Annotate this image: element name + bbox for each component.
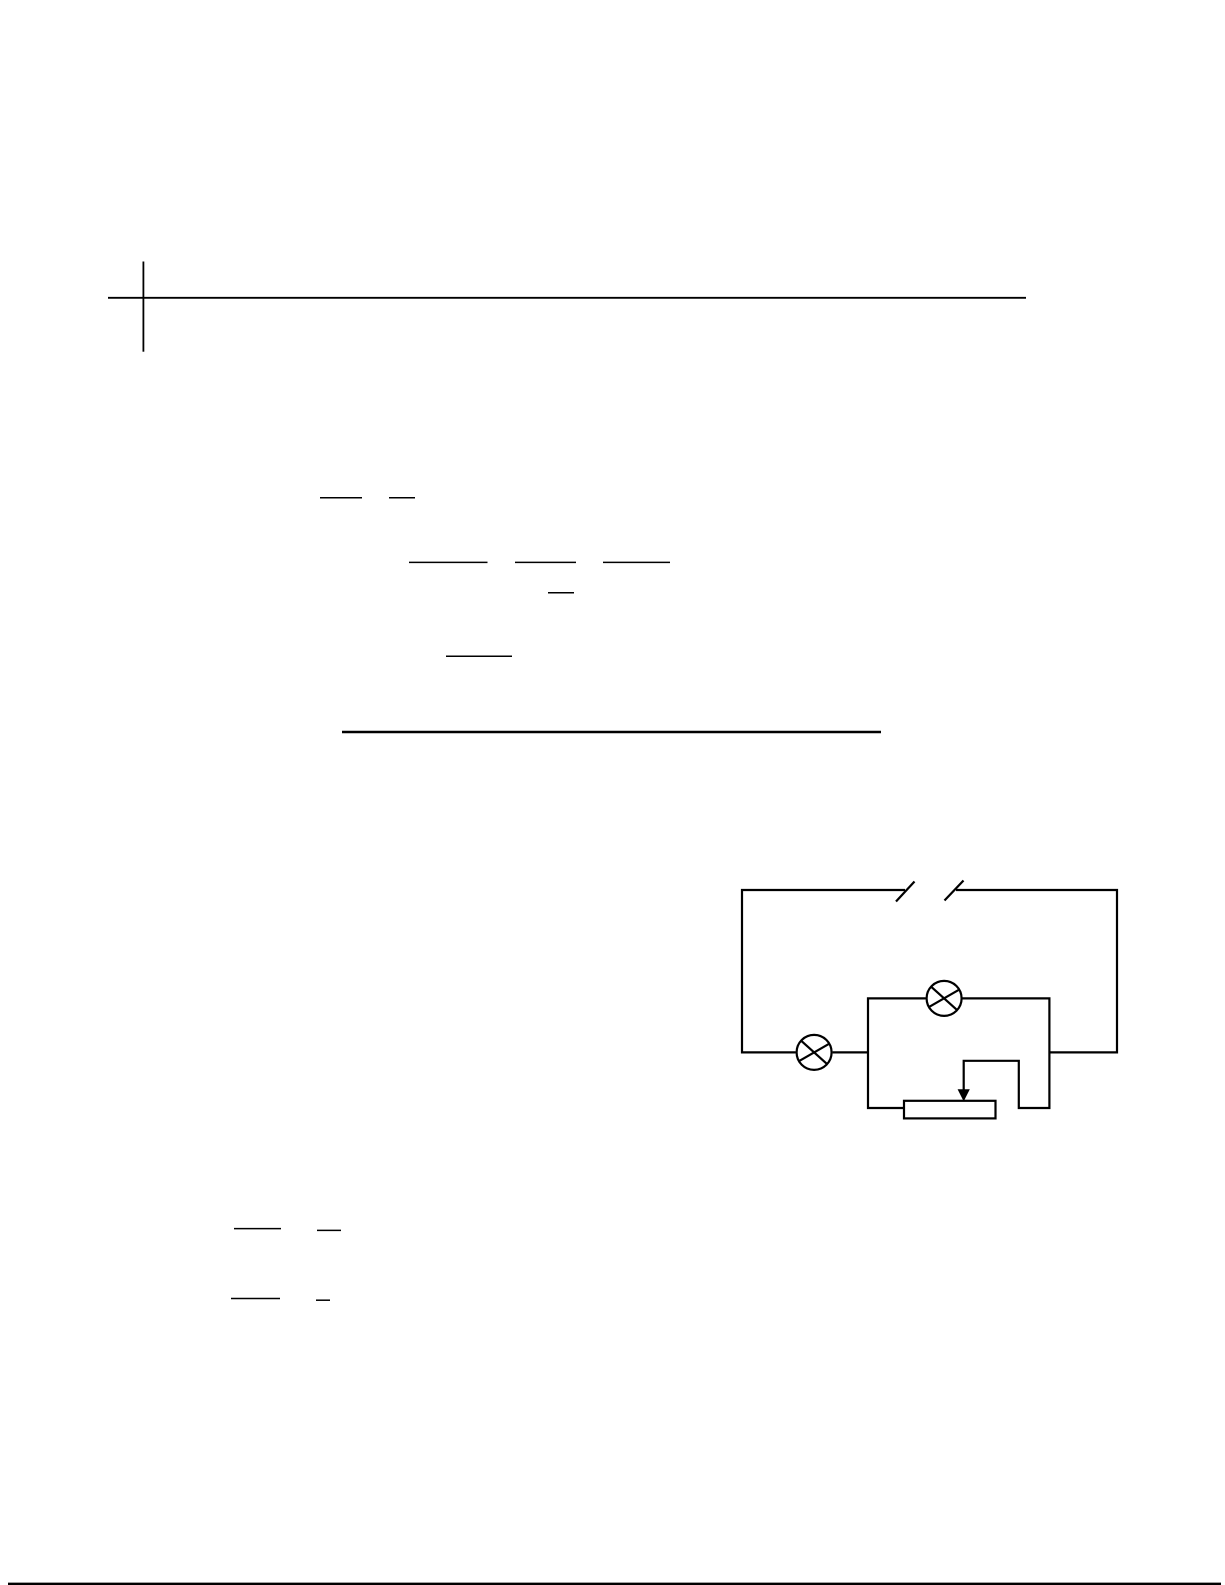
lower fraction bar 4 <box>316 1299 330 1301</box>
lamp L2 cross <box>929 987 959 1010</box>
fraction bar 7 <box>446 655 512 657</box>
crop mark vertical line <box>142 262 144 352</box>
wire: lamp L1 to parallel section node <box>833 1051 868 1053</box>
heading rule horizontal line <box>108 297 1026 299</box>
wire: outer loop right (top-right down to bottom-right) <box>956 890 1117 1052</box>
fraction bar 2 <box>389 497 415 499</box>
lamp L1 cross <box>799 1041 829 1064</box>
fraction bar 6 <box>548 592 574 594</box>
switch S1 blade right <box>945 881 964 901</box>
fraction bar 3 <box>409 561 488 563</box>
wire: outer loop left (top-left to bottom-left to lamp L1) <box>742 890 905 1052</box>
wire: parallel branch top-right and right side down to wiper lead <box>962 998 1049 1108</box>
page bottom rule <box>8 1583 1221 1585</box>
lower fraction bar 3 <box>231 1298 280 1300</box>
fraction bar 1 <box>320 497 362 499</box>
fraction bar 4 <box>515 561 576 563</box>
switch S1 blade left <box>896 882 915 902</box>
lower fraction bar 2 <box>317 1229 341 1231</box>
lamp L1 circle <box>797 1035 832 1070</box>
rheostat R1 body <box>904 1101 996 1119</box>
answer underline <box>342 731 881 733</box>
fraction bar 5 <box>603 561 670 563</box>
wire: parallel branch left side and top to lamp L2 <box>868 998 926 1108</box>
lower fraction bar 1 <box>234 1228 281 1230</box>
wiper arrowhead <box>958 1090 969 1101</box>
lamp L2 circle <box>927 981 962 1016</box>
